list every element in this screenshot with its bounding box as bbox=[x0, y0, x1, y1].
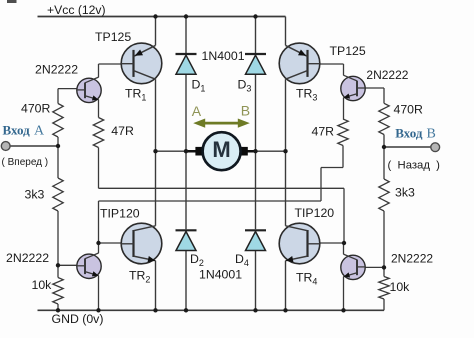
svg-text:3k3: 3k3 bbox=[25, 188, 45, 202]
svg-text:470R: 470R bbox=[394, 103, 424, 117]
svg-text:2N2222: 2N2222 bbox=[391, 252, 433, 266]
svg-text:10k: 10k bbox=[390, 280, 411, 294]
svg-text:47R: 47R bbox=[312, 125, 335, 139]
svg-text:D2: D2 bbox=[190, 252, 204, 268]
svg-text:TIP120: TIP120 bbox=[295, 206, 335, 220]
svg-text:+Vcc (12v): +Vcc (12v) bbox=[47, 3, 106, 17]
svg-text:1N4001: 1N4001 bbox=[202, 49, 245, 63]
svg-text:2N2222: 2N2222 bbox=[366, 68, 408, 82]
svg-text:M: M bbox=[212, 137, 230, 162]
svg-text:TR3: TR3 bbox=[296, 87, 317, 103]
svg-text:B: B bbox=[241, 103, 250, 119]
svg-text:Вход: Вход bbox=[395, 126, 423, 141]
svg-text:TP125: TP125 bbox=[95, 30, 131, 44]
svg-text:TIP120: TIP120 bbox=[100, 207, 140, 221]
svg-text:A: A bbox=[192, 103, 202, 119]
svg-text:B: B bbox=[427, 127, 436, 142]
svg-text:TR1: TR1 bbox=[125, 87, 146, 103]
svg-text:GND (0v): GND (0v) bbox=[52, 312, 104, 326]
svg-text:D4: D4 bbox=[235, 252, 249, 268]
svg-text:470R: 470R bbox=[21, 102, 51, 116]
svg-text:2N2222: 2N2222 bbox=[35, 63, 78, 77]
svg-text:( Вперед ): ( Вперед ) bbox=[2, 157, 49, 168]
svg-text:TP125: TP125 bbox=[330, 44, 366, 58]
svg-text:TR4: TR4 bbox=[296, 271, 317, 287]
svg-text:2N2222: 2N2222 bbox=[6, 251, 49, 265]
svg-text:A: A bbox=[34, 124, 45, 139]
svg-text:3k3: 3k3 bbox=[395, 186, 415, 200]
svg-text:TR2: TR2 bbox=[129, 269, 150, 285]
svg-text:1N4001: 1N4001 bbox=[199, 268, 242, 282]
svg-text:Вход: Вход bbox=[3, 123, 31, 138]
svg-text:( Назад ): ( Назад ) bbox=[388, 160, 441, 172]
svg-text:47R: 47R bbox=[111, 124, 134, 138]
svg-text:D3: D3 bbox=[238, 78, 252, 94]
svg-text:10k: 10k bbox=[32, 278, 53, 292]
svg-text:D1: D1 bbox=[192, 78, 206, 94]
